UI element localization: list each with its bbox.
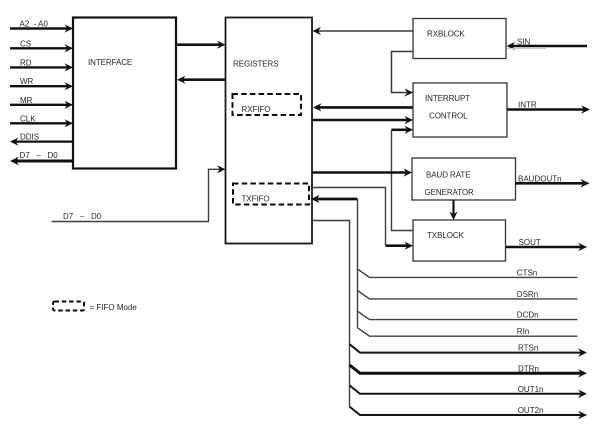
- signal CS wire: [10, 39, 73, 52]
- RXBLOCK block: [413, 19, 506, 59]
- baud rate generator to TXBLOCK arrow: [449, 200, 457, 220]
- TXBLOCK status to interrupt control wire: [392, 126, 414, 231]
- signal SOUT wire (output): [506, 238, 587, 251]
- svg-text:BAUD RATE: BAUD RATE: [426, 171, 470, 180]
- registers to interrupt control arrow: [313, 116, 414, 124]
- svg-text:BAUDOUTn: BAUDOUTn: [518, 174, 562, 183]
- signal DDIS wire (output): [10, 133, 73, 146]
- svg-text:TXBLOCK: TXBLOCK: [427, 231, 465, 240]
- TXBLOCK block: [413, 220, 506, 261]
- svg-text:CONTROL: CONTROL: [429, 111, 468, 120]
- signal MR wire: [10, 96, 73, 109]
- interrupt control block: [413, 83, 507, 137]
- svg-text:MR: MR: [20, 96, 33, 105]
- svg-text:RIn: RIn: [517, 327, 529, 336]
- signal D7-D0 bus (bidirectional): [10, 151, 73, 165]
- svg-text:DDIS: DDIS: [20, 133, 39, 142]
- RXBLOCK to registers wire: [313, 27, 414, 35]
- signal DSRn wire: [358, 290, 578, 299]
- svg-text:SOUT: SOUT: [519, 238, 541, 247]
- RXBLOCK to interrupt control wire: [392, 52, 414, 97]
- modem outputs bus from registers: [313, 221, 350, 407]
- signal OUT1n wire (output): [350, 385, 588, 398]
- svg-text:CTSn: CTSn: [517, 268, 537, 277]
- signal A2-A0 wire: [10, 20, 73, 33]
- svg-text:RD: RD: [20, 58, 32, 67]
- interface block U1: [73, 18, 176, 169]
- svg-text:DTRn: DTRn: [518, 364, 539, 373]
- svg-text:OUT1n: OUT1n: [518, 385, 544, 394]
- signal SIN wire (input): [507, 37, 588, 50]
- svg-text:OUT2n: OUT2n: [518, 406, 544, 415]
- svg-text:CS: CS: [20, 39, 31, 48]
- baud rate generator block: [412, 158, 516, 200]
- lower D7-D0 bus to registers wire: [52, 165, 226, 221]
- svg-text:= FIFO Mode: = FIFO Mode: [90, 303, 138, 312]
- svg-text:D7 – D0: D7 – D0: [20, 151, 59, 160]
- registers to baud rate generator arrow: [313, 168, 413, 176]
- signal CLK wire: [10, 114, 73, 127]
- svg-text:TXFIFO: TXFIFO: [242, 195, 270, 204]
- registers to interface arrow: [177, 76, 226, 84]
- signal RTSn wire (output): [350, 344, 588, 357]
- svg-text:D7 – D0: D7 – D0: [63, 212, 102, 221]
- signal OUT2n wire (output): [350, 406, 588, 419]
- modem inputs bus to TXFIFO arrow: [311, 195, 358, 328]
- svg-text:INTERFACE: INTERFACE: [88, 58, 132, 67]
- signal CTSn wire: [358, 268, 578, 277]
- svg-text:RTSn: RTSn: [518, 344, 538, 353]
- TXFIFO dashed box: [233, 184, 309, 205]
- registers to TXBLOCK wire with arrow: [313, 188, 414, 250]
- signal RIn wire: [358, 327, 578, 336]
- svg-text:RXBLOCK: RXBLOCK: [427, 30, 465, 39]
- svg-text:A2 - A0: A2 - A0: [20, 20, 49, 29]
- signal BAUDOUTn wire (output): [516, 174, 590, 187]
- signal INTR wire (output): [507, 101, 590, 114]
- svg-text:CLK: CLK: [20, 114, 36, 123]
- registers block: [226, 18, 313, 244]
- signal DTRn wire (output): [350, 364, 588, 377]
- signal WR wire: [10, 77, 73, 90]
- svg-text:RXFIFO: RXFIFO: [242, 105, 271, 114]
- FIFO mode legend: [53, 302, 137, 313]
- svg-text:GENERATOR: GENERATOR: [425, 188, 475, 197]
- svg-text:WR: WR: [20, 77, 34, 86]
- svg-text:REGISTERS: REGISTERS: [233, 60, 279, 69]
- svg-text:INTERRUPT: INTERRUPT: [425, 94, 470, 103]
- svg-text:DCDn: DCDn: [517, 311, 539, 320]
- interrupt control to registers (RXFIFO) arrow: [313, 103, 413, 111]
- signal DCDn wire: [358, 311, 578, 320]
- svg-text:DSRn: DSRn: [517, 290, 538, 299]
- interface to registers arrow: [176, 41, 226, 49]
- svg-text:INTR: INTR: [518, 101, 537, 110]
- svg-text:SIN: SIN: [517, 37, 531, 46]
- RXFIFO dashed box: [233, 94, 302, 115]
- signal RD wire: [10, 58, 73, 71]
